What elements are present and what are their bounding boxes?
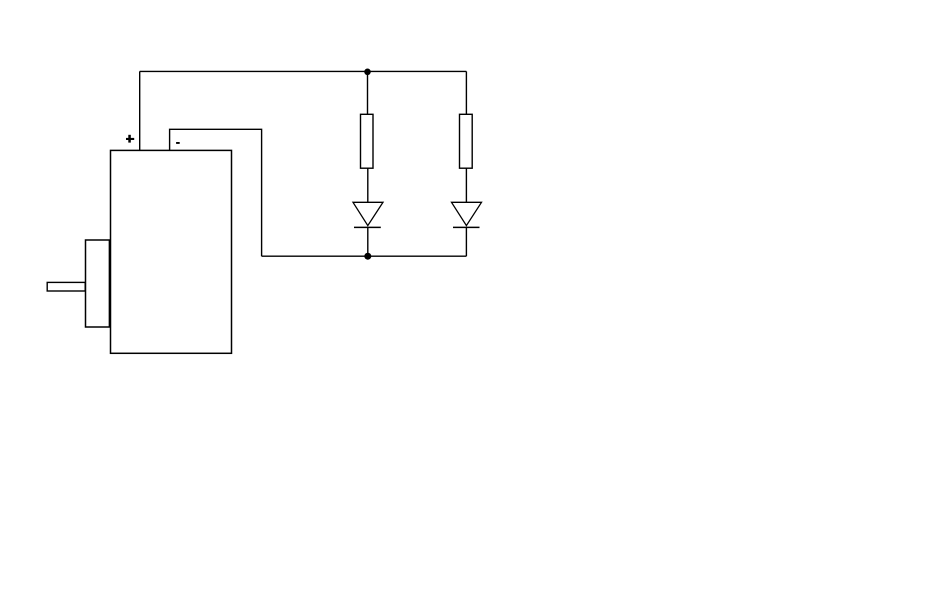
resistor R1 [361,114,374,168]
node: bottom junction dot [364,253,371,260]
node: top junction dot [364,69,371,76]
wire: resistor R2 to diode D2 [465,168,467,202]
wire: diode D1 to bottom rail [367,227,369,256]
motor M1 shaft [47,282,85,291]
resistor R2 [460,114,473,168]
wire: bottom rail [262,255,467,257]
wire: top rail [140,70,467,72]
motor M1 body [111,150,232,353]
wire: diode D2 to bottom rail [465,227,467,256]
wire: top rail down to resistor R2 [465,71,467,114]
wire: + terminal up to top rail [139,71,141,150]
diode D1 [353,202,383,227]
wire: resistor R1 to diode D1 [367,168,369,202]
label: + terminal [126,135,134,143]
wire: - terminal up and over to bottom rail [170,129,262,256]
label: - terminal [176,142,180,144]
wire: top rail to resistor R1 [367,71,369,114]
motor M1 front cap [86,240,110,327]
diode D2 [452,202,482,227]
